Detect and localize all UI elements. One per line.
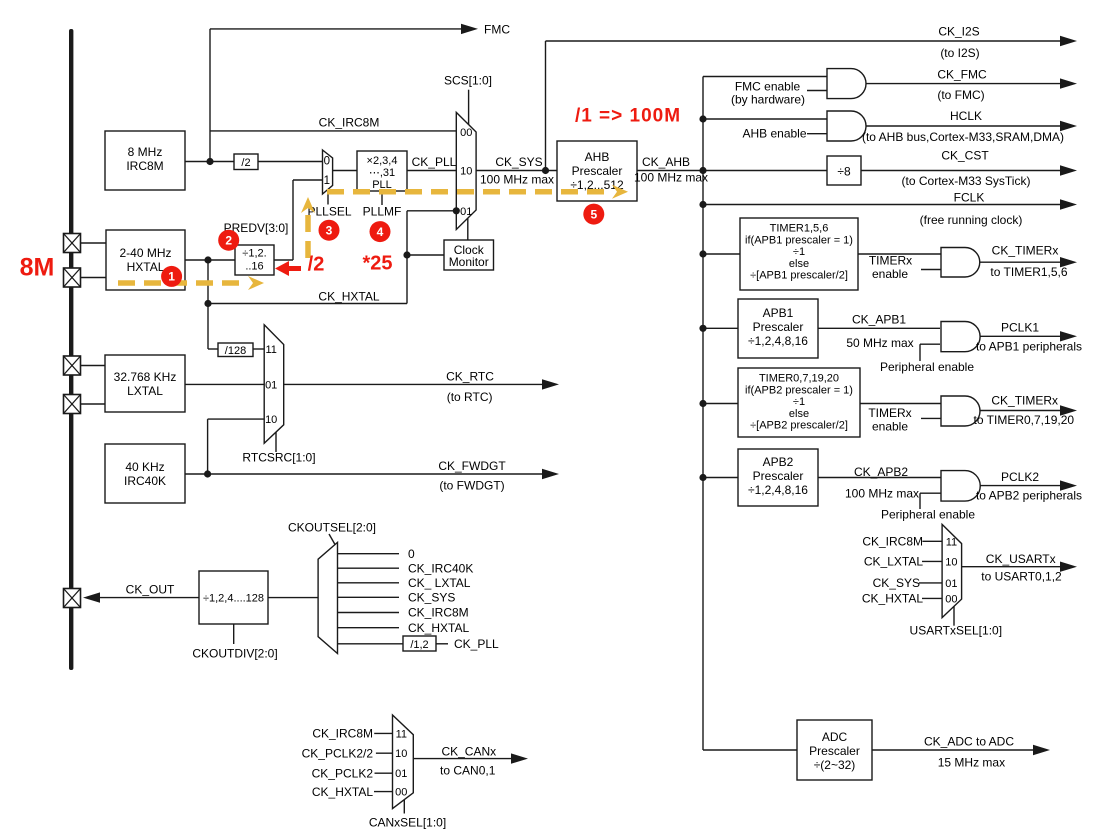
svg-text:FCLK: FCLK: [954, 191, 985, 205]
svg-text:CKOUTDIV[2:0]: CKOUTDIV[2:0]: [192, 647, 277, 661]
svg-text:8 MHz: 8 MHz: [128, 145, 163, 159]
svg-text:PCLK2: PCLK2: [1001, 470, 1039, 484]
svg-text:CK_FWDGT: CK_FWDGT: [438, 459, 506, 473]
svg-text:CK_PLL: CK_PLL: [412, 155, 457, 169]
svg-text:(to FWDGT): (to FWDGT): [439, 479, 504, 493]
svg-text:APB1: APB1: [763, 306, 794, 320]
svg-text:CK_TIMERx: CK_TIMERx: [992, 244, 1059, 258]
svg-text:AHB enable: AHB enable: [742, 127, 806, 141]
svg-text:00: 00: [395, 787, 407, 799]
svg-text:(to I2S): (to I2S): [940, 46, 979, 60]
svg-text:÷1,2,4,8,16: ÷1,2,4,8,16: [748, 483, 808, 497]
svg-text:TIMERx: TIMERx: [869, 254, 912, 268]
svg-text:SCS[1:0]: SCS[1:0]: [444, 74, 492, 88]
svg-text:CK_PCLK2: CK_PCLK2: [312, 766, 374, 780]
svg-text:to APB2 peripherals: to APB2 peripherals: [976, 489, 1082, 503]
svg-text:CK_SYS: CK_SYS: [408, 591, 455, 605]
svg-text:PLLMF: PLLMF: [363, 205, 402, 219]
svg-text:5: 5: [590, 207, 597, 221]
svg-text:to APB1 peripherals: to APB1 peripherals: [976, 340, 1082, 354]
svg-text:CK_IRC8M: CK_IRC8M: [862, 535, 923, 549]
svg-text:Prescaler: Prescaler: [809, 744, 860, 758]
svg-text:HCLK: HCLK: [950, 109, 982, 123]
svg-text:÷(2~32): ÷(2~32): [814, 758, 856, 772]
svg-text:LXTAL: LXTAL: [127, 384, 163, 398]
svg-text:Prescaler: Prescaler: [753, 320, 804, 334]
svg-text:CK_SYS: CK_SYS: [873, 576, 920, 590]
svg-text:CK_IRC40K: CK_IRC40K: [408, 561, 473, 575]
svg-text:11: 11: [265, 344, 276, 356]
svg-text:to TIMER0,7,19,20: to TIMER0,7,19,20: [974, 413, 1075, 427]
svg-text:50 MHz max: 50 MHz max: [846, 336, 913, 350]
svg-text:CK_IRC8M: CK_IRC8M: [319, 116, 380, 130]
svg-text:USARTxSEL[1:0]: USARTxSEL[1:0]: [910, 624, 1002, 638]
svg-text:CKOUTSEL[2:0]: CKOUTSEL[2:0]: [288, 521, 376, 535]
svg-text:2-40 MHz: 2-40 MHz: [119, 246, 171, 260]
svg-text:11: 11: [396, 728, 407, 740]
svg-text:÷1: ÷1: [793, 246, 805, 258]
svg-text:else: else: [789, 258, 809, 270]
svg-text:(by hardware): (by hardware): [731, 93, 805, 107]
svg-text:10: 10: [395, 748, 407, 760]
svg-text:00: 00: [945, 593, 957, 605]
svg-text:CK_CST: CK_CST: [941, 149, 989, 163]
svg-text:CK_CANx: CK_CANx: [441, 744, 496, 758]
svg-text:if(APB2 prescaler = 1): if(APB2 prescaler = 1): [745, 384, 853, 396]
svg-text:enable: enable: [872, 420, 908, 434]
svg-text:CK_USARTx: CK_USARTx: [986, 552, 1056, 566]
svg-text:⋯,31: ⋯,31: [369, 167, 395, 179]
svg-text:if(APB1 prescaler = 1): if(APB1 prescaler = 1): [745, 234, 853, 246]
svg-text:HXTAL: HXTAL: [127, 260, 165, 274]
svg-text:TIMERx: TIMERx: [868, 406, 911, 420]
svg-text:01: 01: [395, 768, 407, 780]
svg-text:2: 2: [225, 234, 232, 248]
svg-text:CK_APB1: CK_APB1: [852, 313, 906, 327]
svg-text:AHB: AHB: [585, 150, 610, 164]
svg-text:CK_ADC to ADC: CK_ADC to ADC: [924, 735, 1014, 749]
svg-text:CK_HXTAL: CK_HXTAL: [318, 290, 379, 304]
svg-text:×2,3,4: ×2,3,4: [367, 155, 398, 167]
svg-text:*25: *25: [362, 253, 392, 275]
svg-text:TIMER0,7,19,20: TIMER0,7,19,20: [759, 373, 839, 385]
svg-text:01: 01: [945, 578, 957, 590]
svg-text:(to AHB bus,Cortex-M33,SRAM,DM: (to AHB bus,Cortex-M33,SRAM,DMA): [862, 130, 1064, 144]
svg-text:IRC8M: IRC8M: [126, 159, 163, 173]
svg-text:0: 0: [408, 547, 415, 561]
svg-text:CK_ LXTAL: CK_ LXTAL: [408, 576, 471, 590]
svg-text:/1 => 100M: /1 => 100M: [575, 106, 681, 127]
svg-text:÷1: ÷1: [793, 396, 805, 408]
svg-text:40 KHz: 40 KHz: [125, 460, 164, 474]
svg-text:CK_IRC8M: CK_IRC8M: [312, 727, 373, 741]
svg-text:(free running clock): (free running clock): [920, 213, 1023, 227]
svg-text:/2: /2: [308, 254, 325, 276]
svg-text:CK_PLL: CK_PLL: [454, 637, 499, 651]
svg-text:to USART0,1,2: to USART0,1,2: [981, 570, 1062, 584]
svg-text:32.768 KHz: 32.768 KHz: [114, 370, 177, 384]
svg-text:CK_I2S: CK_I2S: [938, 25, 979, 39]
svg-text:(to Cortex-M33 SysTick): (to Cortex-M33 SysTick): [902, 174, 1031, 188]
svg-text:(to RTC): (to RTC): [447, 390, 493, 404]
svg-text:CK_PCLK2/2: CK_PCLK2/2: [302, 746, 374, 760]
svg-text:RTCSRC[1:0]: RTCSRC[1:0]: [242, 451, 315, 465]
svg-text:PCLK1: PCLK1: [1001, 321, 1039, 335]
svg-text:to TIMER1,5,6: to TIMER1,5,6: [990, 265, 1067, 279]
svg-text:CANxSEL[1:0]: CANxSEL[1:0]: [369, 815, 446, 829]
svg-text:to CAN0,1: to CAN0,1: [440, 763, 496, 777]
svg-text:CK_APB2: CK_APB2: [854, 465, 908, 479]
svg-text:else: else: [789, 408, 809, 420]
svg-text:CK_FMC: CK_FMC: [937, 68, 987, 82]
svg-text:/2: /2: [241, 157, 250, 169]
svg-text:01: 01: [265, 379, 277, 391]
svg-text:enable: enable: [872, 267, 908, 281]
svg-text:15 MHz max: 15 MHz max: [938, 756, 1005, 770]
svg-text:(to FMC): (to FMC): [937, 88, 984, 102]
svg-text:1: 1: [168, 270, 175, 284]
svg-text:0: 0: [324, 156, 330, 168]
svg-text:Peripheral enable: Peripheral enable: [880, 360, 974, 374]
svg-text:10: 10: [945, 556, 957, 568]
svg-text:10: 10: [460, 166, 472, 178]
svg-text:CK_TIMERx: CK_TIMERx: [991, 394, 1058, 408]
svg-text:CK_HXTAL: CK_HXTAL: [862, 592, 923, 606]
svg-text:..16: ..16: [245, 261, 263, 273]
svg-text:4: 4: [377, 225, 384, 239]
svg-text:Monitor: Monitor: [449, 255, 489, 269]
svg-text:CK_SYS: CK_SYS: [495, 155, 542, 169]
svg-text:FMC enable: FMC enable: [735, 80, 801, 94]
svg-text:÷[APB2 prescaler/2]: ÷[APB2 prescaler/2]: [750, 420, 848, 432]
svg-text:8M: 8M: [20, 254, 55, 282]
svg-text:CK_HXTAL: CK_HXTAL: [408, 621, 469, 635]
svg-text:÷8: ÷8: [837, 165, 851, 179]
svg-text:1: 1: [324, 175, 330, 187]
svg-text:11: 11: [946, 536, 957, 548]
svg-text:Prescaler: Prescaler: [753, 469, 804, 483]
svg-text:CK_IRC8M: CK_IRC8M: [408, 606, 469, 620]
svg-text:÷[APB1 prescaler/2]: ÷[APB1 prescaler/2]: [750, 270, 848, 282]
svg-text:CK_AHB: CK_AHB: [642, 155, 690, 169]
svg-text:00: 00: [460, 127, 472, 139]
svg-text:CK_OUT: CK_OUT: [126, 583, 175, 597]
svg-text:FMC: FMC: [484, 23, 510, 37]
svg-text:TIMER1,5,6: TIMER1,5,6: [770, 223, 829, 235]
svg-text:100 MHz max: 100 MHz max: [634, 171, 708, 185]
svg-text:Prescaler: Prescaler: [572, 164, 623, 178]
svg-text:01: 01: [460, 206, 472, 218]
svg-text:CK_HXTAL: CK_HXTAL: [312, 785, 373, 799]
svg-text:APB2: APB2: [763, 455, 794, 469]
svg-text:100 MHz max: 100 MHz max: [845, 487, 919, 501]
svg-text:/1,2: /1,2: [410, 639, 428, 651]
svg-text:÷1,2,4....128: ÷1,2,4....128: [203, 593, 264, 605]
svg-text:CK_RTC: CK_RTC: [446, 369, 494, 383]
svg-text:ADC: ADC: [822, 730, 848, 744]
svg-text:CK_LXTAL: CK_LXTAL: [864, 555, 923, 569]
svg-text:10: 10: [265, 414, 277, 426]
svg-text:÷1,2.: ÷1,2.: [242, 248, 266, 260]
svg-text:3: 3: [326, 224, 333, 238]
svg-text:IRC40K: IRC40K: [124, 474, 166, 488]
svg-text:÷1,2,4,8,16: ÷1,2,4,8,16: [748, 334, 808, 348]
svg-text:/128: /128: [225, 345, 246, 357]
svg-text:100 MHz max: 100 MHz max: [480, 173, 554, 187]
svg-text:Peripheral enable: Peripheral enable: [881, 508, 975, 522]
